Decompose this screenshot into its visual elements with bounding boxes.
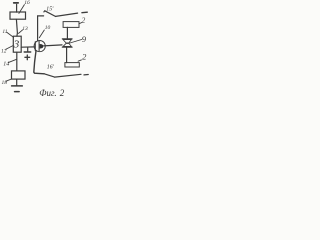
relay bottom contact rectangle — [65, 63, 79, 67]
leader line for label 10 — [39, 30, 44, 38]
stub top rect to armature — [66, 27, 68, 38]
switch 15' blade — [44, 11, 56, 17]
wire box11 to box 14 — [16, 52, 18, 71]
box 14/18 (bottom-left rectangle) — [12, 71, 26, 79]
tube 10 envelope circle — [34, 41, 45, 52]
leader line for top label 2 — [79, 22, 82, 23]
battery long plate — [12, 85, 23, 87]
svg-text:16: 16 — [24, 0, 30, 6]
leader line for label 16 — [19, 5, 25, 14]
plus terminal bar — [24, 51, 31, 53]
box 11 (squiggle rectangle) — [13, 36, 21, 52]
bottom rail to line terminal — [55, 74, 81, 77]
armature 9 bottom bar — [62, 46, 72, 48]
leader line for label 13 — [19, 30, 23, 34]
svg-text:10: 10 — [45, 25, 51, 31]
wire tube top to switch corner — [38, 16, 44, 41]
svg-text:12: 12 — [1, 49, 7, 55]
box 16 (top-left rectangle) — [10, 12, 26, 19]
armature 9 bottom funnel — [63, 43, 71, 46]
svg-text:11: 11 — [2, 29, 7, 35]
wire box16 to box 11 — [16, 19, 17, 36]
svg-text:14: 14 — [3, 61, 9, 68]
minus terminal bar — [14, 2, 19, 4]
armature 9 top bar — [62, 38, 72, 40]
svg-text:16': 16' — [47, 65, 55, 71]
svg-text:13: 13 — [22, 26, 28, 32]
svg-text:2: 2 — [82, 51, 87, 61]
leader line for label 18 — [6, 79, 11, 81]
horizontal feed wire box11 to tube — [21, 46, 35, 48]
top line dash — [82, 11, 87, 14]
svg-text:3: 3 — [13, 38, 20, 50]
tube grid bar — [38, 41, 40, 50]
svg-text:15': 15' — [46, 6, 54, 12]
battery short plate — [15, 91, 20, 93]
svg-text:9: 9 — [82, 34, 87, 44]
tube cathode bar left — [34, 42, 36, 51]
plus sign — [25, 55, 30, 60]
leader line for label 12 — [6, 46, 13, 50]
leader line for label 9 — [70, 40, 82, 44]
svg-text:Фиг.: Фиг. — [39, 88, 56, 98]
leader line for bottom label 2 — [78, 60, 81, 61]
leader line for label 14 — [8, 59, 16, 62]
wire tube to armature — [44, 45, 62, 46]
svg-text:18: 18 — [2, 80, 8, 86]
wire from minus bar to box 16 — [16, 4, 18, 12]
relay top contact rectangle — [63, 22, 79, 28]
wire armature to bottom contact — [66, 48, 68, 63]
plus terminal stub — [27, 47, 29, 51]
bottom line dash — [84, 74, 88, 76]
switch 16' blade — [44, 74, 54, 77]
svg-text:2: 2 — [82, 16, 86, 24]
thick wire tube bottom down — [34, 51, 44, 74]
tube anode filled half-disc — [40, 44, 44, 49]
top rail to line terminal — [56, 13, 78, 16]
wire box to battery — [16, 79, 18, 85]
armature 9 top funnel — [63, 40, 71, 43]
svg-text:2: 2 — [60, 88, 65, 98]
leader line for label 11 — [7, 32, 14, 37]
